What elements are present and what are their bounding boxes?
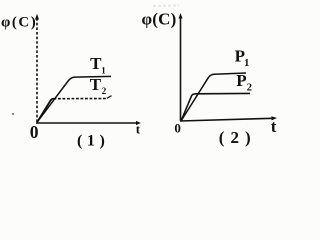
curve T2 plateau end flick [107,96,112,99]
x-axis graph 2 [180,118,273,121]
curve P2 graph 2 (rise + solid plateau) [181,93,250,121]
svg-text:φ(C): φ(C) [142,9,177,28]
curve P1 graph 2 (rise + solid plateau) [181,73,246,121]
curve T2 graph 1 dashed plateau [54,98,107,100]
svg-text:P: P [236,71,246,90]
faint scan smudge top [153,5,179,8]
curve T2 graph 1 rise [37,99,54,123]
svg-text:t: t [271,117,277,136]
svg-text:2: 2 [102,86,107,96]
svg-text:0: 0 [30,122,39,142]
svg-text:( 1 ): ( 1 ) [77,133,105,150]
y-axis graph 2 (solid with arrow) [180,17,182,121]
svg-text:1: 1 [244,58,249,69]
svg-text:1: 1 [101,65,106,75]
curve T1 graph 1 (rise + solid plateau) [37,76,111,122]
svg-text:T: T [90,75,102,94]
scan speck [12,113,14,115]
svg-text:2: 2 [247,83,252,94]
svg-text:0: 0 [174,120,181,135]
svg-text:φ(C): φ(C) [1,14,37,30]
svg-text:( 2 ): ( 2 ) [219,128,252,147]
x-axis graph 1 [36,122,137,124]
svg-text:t: t [136,121,141,136]
y-axis graph 1 (dashed with arrow) [36,19,38,122]
